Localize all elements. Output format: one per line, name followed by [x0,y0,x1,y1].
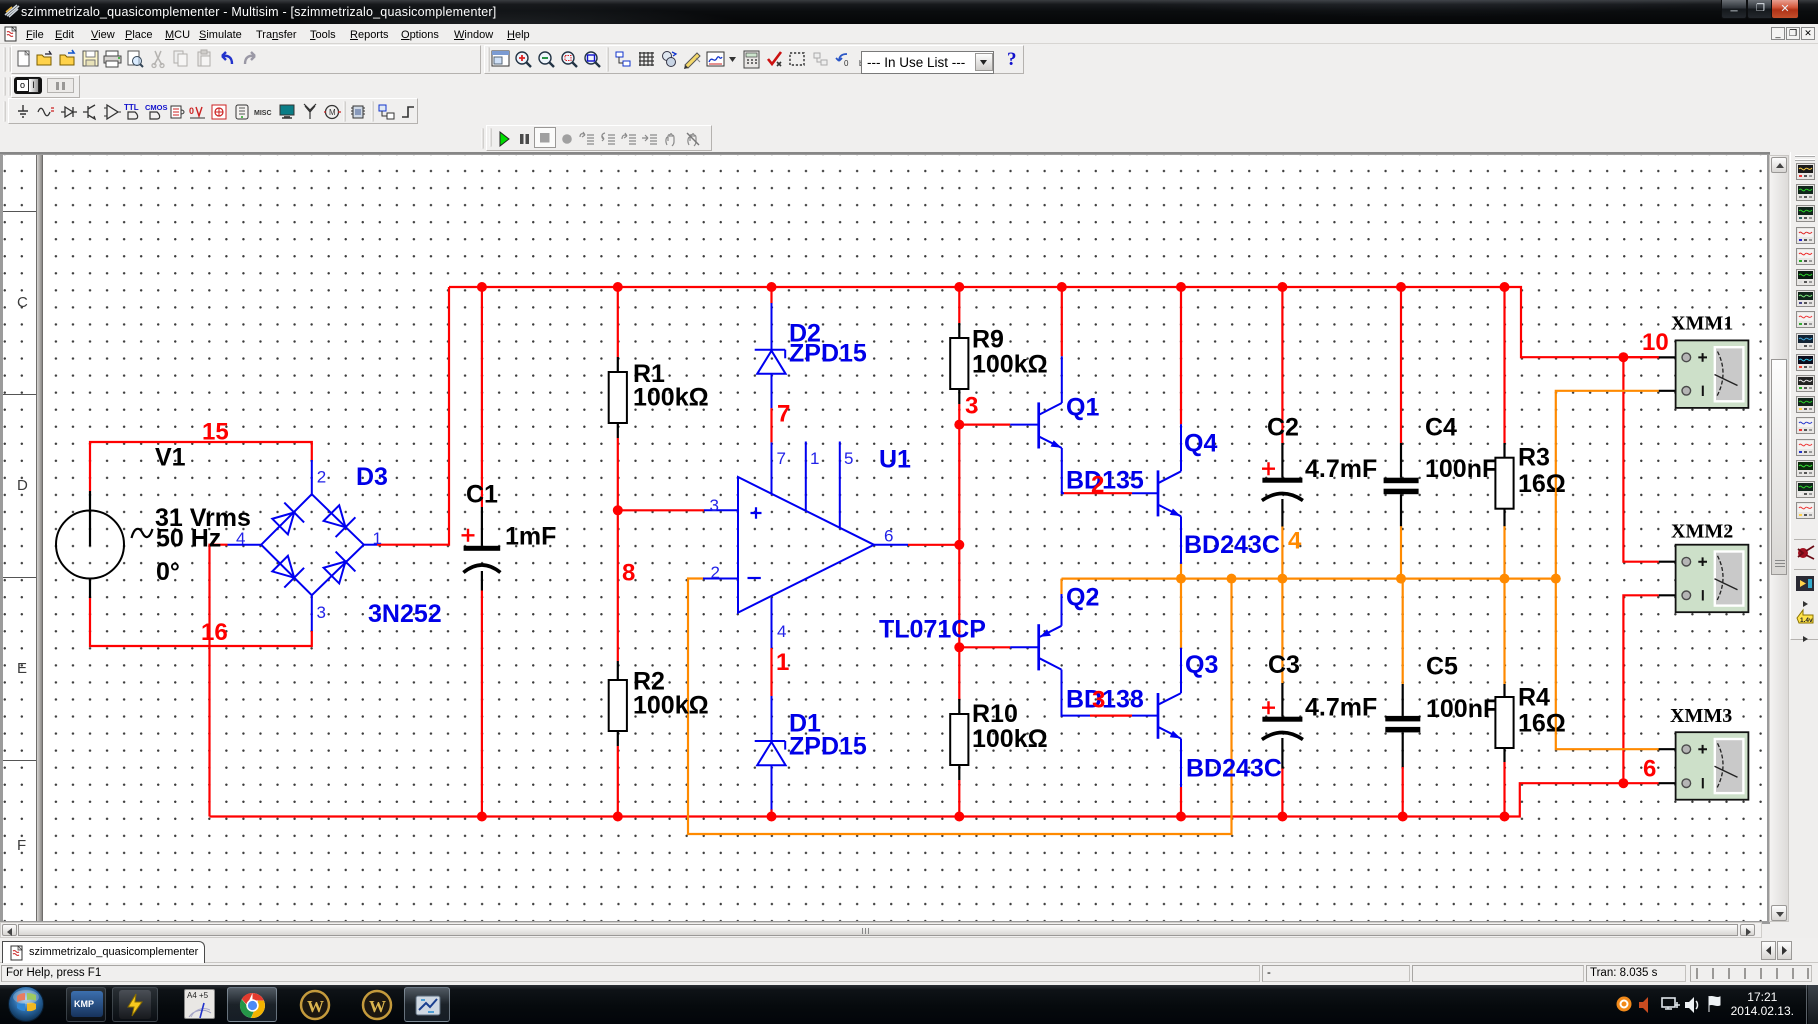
wire: Q4 collector top drop [1180,287,1182,424]
junction dot node 8 at R1/R2 [613,505,623,515]
capacitor C2 polarized [1262,443,1303,527]
wire: R9 bottom node 3 [958,404,960,425]
orange net 4: output bus [1062,577,1556,579]
wire: V1 top loop net 15 [90,442,312,491]
svg-text:W: W [307,997,324,1016]
instruments toolbar icons [1796,163,1815,180]
orange net 4: C5 top [1402,579,1404,684]
svg-text:4: 4 [777,622,786,641]
orange net 4: C4 bottom [1400,526,1402,579]
capacitor C3 polarized [1262,683,1303,769]
AC source V1 [56,491,153,598]
right vertical scrollbar [1769,155,1789,922]
wire: Q3 emitter bottom [1180,787,1182,817]
wire: net 7 D2 to op-amp pin7 [770,408,772,442]
svg-text:XMM1: XMM1 [1671,313,1733,335]
diode upper-right [336,517,356,537]
op-amp U1 TL071CP [703,442,908,649]
svg-text:7: 7 [777,449,786,468]
menu bar [0,24,1818,44]
wire: C1 top drop [481,287,483,507]
wire: top positive bus (net to all collectors) [449,287,1659,357]
svg-text:Q3: Q3 [1185,651,1218,679]
svg-text:D3: D3 [356,463,388,491]
wire: R2 bottom [617,746,619,817]
svg-text:16Ω: 16Ω [1518,470,1566,498]
svg-text:2: 2 [317,468,326,487]
svg-text:100kΩ: 100kΩ [972,350,1048,378]
wire: Q2 collector corner [1062,703,1091,716]
zener diode D2 [755,303,786,408]
svg-text:50 Hz: 50 Hz [156,524,221,552]
svg-text:BD135: BD135 [1066,466,1144,494]
svg-text:7: 7 [777,400,790,427]
document tab row [0,938,1818,963]
zoom block [489,48,511,70]
wire: R3 top drop [1503,287,1505,443]
svg-text:100nF: 100nF [1426,695,1498,723]
svg-text:4: 4 [236,529,245,548]
svg-text:C1: C1 [466,481,498,509]
capacitor C1 polarized [462,507,501,591]
multimeter XMM2 [1659,545,1749,613]
wire: node down to R10 [958,647,960,699]
svg-text:C3: C3 [1268,651,1300,679]
svg-text:0°: 0° [156,558,180,586]
wire: Q1 collector top drop [1061,287,1063,356]
toolbar row 2 : run switch [0,75,1818,98]
svg-text:C2: C2 [1267,413,1299,441]
wire: R1-R2 middle net 8 [617,438,619,661]
svg-text:6: 6 [1643,756,1656,783]
bridge rectifier D3 [228,460,378,631]
svg-text:1: 1 [776,649,789,676]
svg-text:100nF: 100nF [1425,455,1497,483]
orange net 4: Q3 collector link [1180,579,1182,648]
svg-text:3: 3 [965,392,978,419]
junction dot node 6 [1618,778,1628,788]
svg-text:8: 8 [622,559,635,586]
svg-text:V1: V1 [155,443,186,471]
multimeter XMM3 [1659,732,1749,800]
svg-text:2: 2 [1091,471,1104,498]
transistor Q1 NPN BD135 [1010,356,1064,493]
svg-text:C5: C5 [1426,652,1458,680]
in use list combo [861,51,994,74]
bottom horizontal scrollbar [0,922,1762,938]
start orb [6,985,46,1024]
svg-text:16: 16 [201,619,228,646]
svg-text:4: 4 [1288,527,1302,554]
resistor R3 [1495,443,1513,526]
junction dots on orange bus [1176,574,1561,584]
svg-text:TL071CP: TL071CP [879,616,986,644]
wire: node 8 branch to op-amp pin3 [618,509,704,511]
wire: node to Q2 base [959,646,1010,648]
svg-text:M: M [329,108,336,117]
wire: node 10 to XMM1 plus and XMM2 plus [1623,357,1658,562]
wire: C2 top drop [1281,287,1283,443]
wire: C3 bottom [1281,768,1283,817]
status bar [0,963,1818,985]
svg-text:TTL: TTL [124,103,139,112]
wire: Q1 emitter to Q4 base [1063,492,1132,494]
wire: node 3 down to output node [958,425,960,648]
junction dots node 3 chain [954,420,964,430]
wire: top bus left drop to bridge pin1 [377,287,449,545]
resistor R10 [950,699,968,780]
wire: V1 bottom loop net 16 [90,598,312,646]
svg-text:100kΩ: 100kΩ [972,725,1048,753]
junction dots on bottom rail [477,812,1510,822]
wire: R4 bottom [1503,762,1505,817]
svg-text:3: 3 [1092,686,1105,713]
taskbar buttons [66,987,106,1022]
svg-text:Q1: Q1 [1066,394,1099,422]
svg-text:ZPD15: ZPD15 [789,733,867,761]
diode upper-left [284,503,304,523]
resistor R2 [609,661,627,746]
capacitor C4 [1384,443,1419,526]
svg-text:R9: R9 [972,325,1004,353]
wire: bottom rail [210,783,1659,816]
resistor R1 [609,357,627,438]
svg-text:16Ω: 16Ω [1518,710,1566,738]
svg-text:5: 5 [844,449,853,468]
svg-text:U1: U1 [879,446,911,474]
svg-text:2: 2 [711,563,720,582]
svg-text:MISC: MISC [254,110,272,117]
svg-text:XMM3: XMM3 [1670,705,1732,727]
diode lower-right [336,552,356,572]
svg-text:R10: R10 [972,700,1018,728]
component toolbar row [0,98,1818,125]
wire: R10 bottom [958,780,960,817]
wire: Q2 collector to Q3 base [1090,714,1132,716]
orange net 4: R4 top [1503,579,1505,684]
svg-text:100kΩ: 100kΩ [633,384,709,412]
transistor Q2 PNP BD138 [1010,594,1061,704]
transistor Q4 NPN BD243C [1132,424,1181,564]
zener diode D1 [755,696,786,810]
multimeter XMM1 [1659,340,1749,408]
resistor R4 [1495,684,1513,762]
svg-text:1mF: 1mF [505,523,556,551]
junction dots on top bus [477,282,1510,292]
orange net 4: feedback to op-amp pin2 [688,579,1232,835]
junction dot node 10 [1618,352,1628,362]
svg-text:BD243C: BD243C [1186,754,1282,782]
svg-text:10: 10 [1642,329,1669,356]
orange net 4: C2 bottom [1281,526,1283,579]
svg-text:CMOS: CMOS [145,103,168,112]
svg-text:BD243C: BD243C [1184,531,1280,559]
wire: op-amp output to node [908,544,959,546]
capacitor C5 [1385,684,1420,767]
svg-text:0: 0 [844,59,849,68]
wire: D2 top drop [770,287,772,304]
right instruments toolbar [1790,152,1818,640]
simulation toolbar row [0,125,1818,152]
orange net 4: Q2 emitter link [1060,579,1062,594]
wire: C5 bottom [1402,767,1404,817]
orange net 4: C3 top [1281,579,1283,683]
canvas area [0,152,1770,924]
svg-text:1.4v: 1.4v [1800,617,1813,624]
svg-text:ZPD15: ZPD15 [789,340,867,368]
svg-text:6: 6 [884,527,893,546]
wire: C4 top drop [1400,287,1402,443]
icons row1 [13,48,35,70]
svg-text:W: W [369,997,386,1016]
svg-text:4.7mF: 4.7mF [1305,694,1377,722]
resistor R9 [950,323,968,404]
wire: net 1 op-amp pin4 to D1 [770,648,772,696]
svg-text:Q4: Q4 [1184,430,1217,458]
svg-text:3: 3 [317,603,326,622]
wire: bridge pin4 to bottom rail [210,545,228,817]
svg-text:C4: C4 [1425,413,1457,441]
wire: R9 top drop [958,287,960,323]
toolbar row 1 [0,44,1818,75]
svg-text:R4: R4 [1518,684,1550,712]
svg-text:1: 1 [810,449,819,468]
wire: D1 bottom [770,809,772,817]
svg-text:0: 0 [189,106,194,116]
taskbar [0,985,1818,1024]
svg-text:R3: R3 [1518,443,1550,471]
svg-text:1: 1 [373,529,382,548]
svg-text:100kΩ: 100kΩ [633,692,709,720]
wire: R1 top drop [617,287,619,357]
wire: node 3 to Q1 base [959,424,1010,426]
tray icons [1616,996,1634,1014]
svg-text:XMM2: XMM2 [1671,521,1733,543]
svg-text:3: 3 [710,496,719,515]
transistor Q3 NPN BD243C [1132,648,1181,787]
diode lower-left [284,568,304,588]
orange net 4: right branch to XMM1 minus and XMM3 plus [1556,391,1659,749]
svg-text:Q2: Q2 [1066,584,1099,612]
svg-text:3N252: 3N252 [368,600,442,628]
wire: node 6 XMM2 minus to XMM3 minus [1623,595,1658,783]
wire: C1 bottom drop [481,591,483,817]
title bar [0,0,1818,24]
svg-text:15: 15 [202,419,229,446]
svg-text:4.7mF: 4.7mF [1305,455,1377,483]
orange net 4: Q4 emitter link [1180,564,1182,579]
orange net 4: R3 bottom [1503,526,1505,579]
